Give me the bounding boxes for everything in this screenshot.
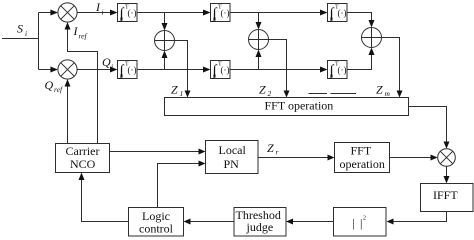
wire A2 output Z2 down to FFT xyxy=(269,40,287,92)
adder A3 xyxy=(362,28,382,48)
svg-text:0: 0 xyxy=(330,74,333,80)
Local PN box xyxy=(206,141,259,174)
svg-text:PN: PN xyxy=(224,157,240,171)
dashed continuation marks xyxy=(309,93,357,95)
integrator B5 xyxy=(211,61,231,81)
svg-text:NCO: NCO xyxy=(70,157,96,171)
svg-text:control: control xyxy=(139,222,174,236)
svg-text:i: i xyxy=(25,29,27,38)
svg-text:2: 2 xyxy=(363,216,366,222)
svg-text:0: 0 xyxy=(213,74,216,80)
svg-text:(·): (·) xyxy=(221,8,230,18)
wire M2 to integrator B4 xyxy=(77,69,111,71)
svg-text:0: 0 xyxy=(120,74,123,80)
IFFT box xyxy=(421,184,474,212)
wire Local PN to FFT2 with node Zr xyxy=(258,157,328,159)
wire Logic control to Carrier NCO xyxy=(82,180,129,222)
wire B1 to B2 with tap to adder A1 xyxy=(137,13,204,24)
wire M1 to integrator B1 xyxy=(77,12,111,14)
Logic control box xyxy=(129,208,184,237)
svg-text:operation: operation xyxy=(340,157,385,171)
svg-text:1: 1 xyxy=(180,89,184,98)
wire Q_ref from NCO up to multiplier M2 xyxy=(67,86,69,144)
svg-text:Z: Z xyxy=(171,83,178,97)
adder A2 xyxy=(249,30,269,50)
wire B3 to adder A3 top input xyxy=(347,13,372,21)
svg-text:Carrier: Carrier xyxy=(66,144,100,158)
node S_i input label xyxy=(17,22,27,39)
wire S_i input and split xyxy=(2,13,52,70)
svg-text:(·): (·) xyxy=(128,65,137,75)
wire A1 output Z1 down to FFT xyxy=(175,41,188,92)
svg-text:Q: Q xyxy=(45,78,54,92)
multiplier M2 (Q branch) xyxy=(58,60,77,79)
adder A1 xyxy=(155,31,175,51)
svg-text:m: m xyxy=(385,89,391,98)
multiplier M1 (I branch) xyxy=(58,3,77,22)
wire M3 down to IFFT xyxy=(446,166,448,176)
wire NCO to Local PN xyxy=(110,151,200,153)
svg-text:FFT: FFT xyxy=(351,144,372,158)
Threshod judge box xyxy=(234,208,286,237)
svg-text:S: S xyxy=(17,22,23,36)
multiplier M3 xyxy=(438,149,456,167)
wire B5 to B6 with tap up to adder A2 xyxy=(230,57,321,70)
wire I_ref from NCO up to multiplier M1 xyxy=(68,29,98,144)
svg-text:0: 0 xyxy=(213,17,216,23)
node I_i label xyxy=(95,0,104,17)
wire FFT2 to multiplier M3 xyxy=(390,157,432,159)
integrator B6 xyxy=(328,61,348,81)
wire B6 to adder A3 bottom input xyxy=(347,55,372,70)
node Q_ref label xyxy=(45,78,63,94)
svg-text:|: | xyxy=(353,216,355,230)
integrator B1 xyxy=(118,4,138,24)
svg-text:(·): (·) xyxy=(128,8,137,18)
svg-text:2: 2 xyxy=(268,89,272,98)
svg-text:(·): (·) xyxy=(338,8,347,18)
wire squared-magnitude to Threshod judge xyxy=(293,221,334,223)
integrator B2 xyxy=(211,4,231,24)
svg-text:IFFT: IFFT xyxy=(433,188,458,202)
squared magnitude box xyxy=(334,208,387,237)
wire Logic control up to Local PN xyxy=(158,164,200,208)
svg-text:Z: Z xyxy=(267,141,274,155)
svg-text:0: 0 xyxy=(330,17,333,23)
arrow into multiplier M1 xyxy=(50,10,58,16)
wire A3 output Zm down to FFT xyxy=(382,38,400,92)
wire Threshod judge to Logic control xyxy=(190,221,234,223)
wire B2 to B3 with tap to adder A2 xyxy=(230,13,321,23)
svg-text:Local: Local xyxy=(219,143,247,157)
node Zm label xyxy=(376,83,391,99)
Carrier NCO box xyxy=(56,144,110,173)
svg-text:ref: ref xyxy=(79,32,88,41)
svg-text:FFT operation: FFT operation xyxy=(265,99,334,113)
wire IFFT down-left to squared-magnitude box xyxy=(393,212,447,222)
svg-text:(·): (·) xyxy=(221,65,230,75)
wire FFT U1 to multiplier M3 xyxy=(409,107,447,143)
node Z2 label xyxy=(259,83,272,99)
svg-text:(·): (·) xyxy=(338,65,347,75)
svg-text:r: r xyxy=(276,148,279,157)
svg-text:Z: Z xyxy=(259,83,266,97)
svg-text:judge: judge xyxy=(246,220,274,234)
wire B4 to B5 with tap up to adder A1 xyxy=(137,58,204,70)
svg-text:Q: Q xyxy=(102,55,111,69)
svg-text:Z: Z xyxy=(376,83,383,97)
node Z1 label xyxy=(171,83,183,99)
FFT operation box U1 xyxy=(165,98,409,116)
arrow into multiplier M2 xyxy=(50,67,58,73)
integrator B3 xyxy=(328,4,348,24)
FFT operation box U2 xyxy=(335,143,390,173)
svg-text:0: 0 xyxy=(120,17,123,23)
svg-text:ref: ref xyxy=(54,85,63,94)
node Zr label xyxy=(267,141,279,157)
node I_ref label xyxy=(73,24,88,41)
node Q_i label xyxy=(102,55,113,71)
integrator B4 xyxy=(118,61,138,81)
